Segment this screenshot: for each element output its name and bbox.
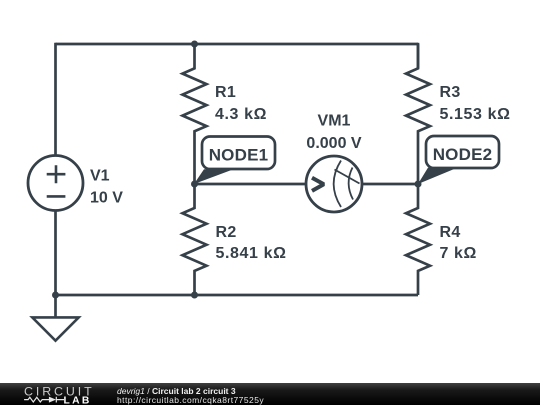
node NODE1: [194, 137, 275, 185]
circuitlab logo: [0, 383, 100, 405]
junction bottom left: [52, 292, 59, 299]
resistor R1: [183, 44, 207, 184]
svg-text:V1: V1: [90, 167, 110, 184]
junction top: [191, 41, 198, 48]
svg-text:VM1: VM1: [318, 112, 351, 129]
svg-text:NODE1: NODE1: [209, 145, 269, 164]
svg-text:5.153 kΩ: 5.153 kΩ: [440, 106, 511, 123]
svg-text:0.000 V: 0.000 V: [306, 135, 361, 152]
wire bottom: [56, 294, 419, 297]
junction bottom mid: [191, 292, 198, 299]
svg-text:R4: R4: [440, 224, 461, 241]
wire right upper: [417, 43, 420, 69]
node NODE2: [418, 136, 499, 184]
junction node1: [191, 181, 198, 188]
svg-text:R3: R3: [440, 84, 461, 101]
resistor R2: [183, 184, 207, 295]
svg-text:LAB: LAB: [64, 396, 92, 405]
wire node1 to voltmeter: [195, 183, 307, 186]
junction node2: [415, 181, 422, 188]
svg-text:4.3 kΩ: 4.3 kΩ: [215, 106, 267, 123]
wire voltmeter to node2: [362, 183, 418, 186]
voltage source V1: [28, 156, 83, 211]
resistor R3: [406, 44, 430, 184]
footer bar: [0, 383, 540, 405]
svg-text:R2: R2: [216, 224, 237, 241]
wire top: [56, 43, 419, 46]
svg-text:7 kΩ: 7 kΩ: [440, 245, 477, 262]
wire left lower: [54, 211, 57, 296]
svg-text:10 V: 10 V: [90, 189, 123, 206]
voltmeter VM1: [306, 156, 362, 212]
svg-text:5.841 kΩ: 5.841 kΩ: [216, 245, 287, 262]
footer title: [117, 387, 236, 395]
wire left upper: [54, 43, 57, 156]
footer url: [117, 396, 264, 404]
svg-text:NODE2: NODE2: [433, 145, 493, 164]
ground: [32, 295, 78, 341]
svg-text:R1: R1: [215, 84, 236, 101]
resistor R4: [406, 184, 430, 295]
